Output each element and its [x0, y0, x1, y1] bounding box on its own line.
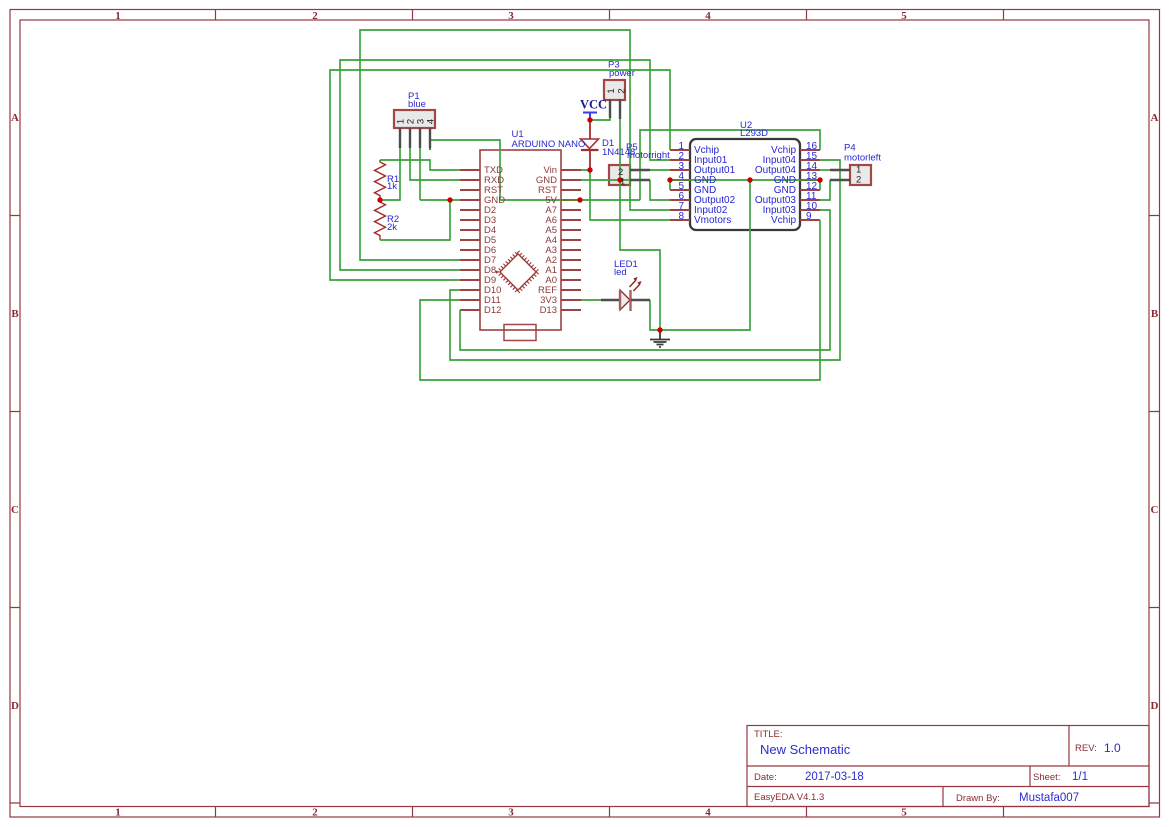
connector P1 body — [394, 110, 435, 128]
node P5 pin1 junction — [617, 177, 622, 182]
svg-text:C: C — [11, 504, 19, 516]
wire P3 pin1 to VCC node — [590, 117, 610, 120]
svg-text:9: 9 — [806, 211, 812, 222]
connector P4 body — [850, 165, 871, 185]
svg-text:3: 3 — [508, 10, 514, 22]
arduino U1 chip diamond icon — [498, 252, 539, 293]
pin numbers P3 rotated — [606, 88, 628, 93]
svg-text:1.0: 1.0 — [1104, 741, 1121, 755]
wire 3V3 to LED anode — [581, 299, 601, 301]
wire U2 pin12 to GND dot — [819, 180, 821, 190]
resistor R2 — [375, 200, 386, 240]
node ground junction — [657, 327, 662, 332]
svg-text:motorleft: motorleft — [844, 153, 881, 164]
pin numbers P5 — [618, 167, 625, 188]
svg-text:Drawn By:: Drawn By: — [956, 793, 1000, 804]
resistor R1 — [375, 160, 386, 200]
wire R1 top to TXD — [380, 160, 460, 170]
svg-text:4: 4 — [426, 119, 437, 124]
row labels right — [1151, 112, 1159, 712]
row labels left — [11, 112, 19, 712]
svg-text:Date:: Date: — [754, 772, 777, 783]
wire D12 to U2 pin10 Input03 — [460, 210, 830, 350]
svg-text:4: 4 — [705, 10, 711, 22]
wire net D8 to U2 pin2 Input01 — [340, 60, 670, 270]
pin names U2 left — [694, 145, 736, 226]
connector P5 body — [609, 165, 630, 185]
svg-text:5: 5 — [901, 10, 907, 22]
wire U2 pin5 to GND dot — [669, 180, 671, 190]
wire U2 pin11 Output03 to P4 pin2 — [820, 180, 830, 200]
ground symbol — [650, 330, 670, 347]
svg-text:D13: D13 — [540, 305, 557, 316]
svg-text:1/1: 1/1 — [1072, 771, 1088, 783]
TITLEBLOCK — [747, 726, 1149, 807]
svg-text:VCC: VCC — [580, 98, 607, 112]
svg-text:C: C — [1151, 504, 1159, 516]
svg-text:B: B — [11, 308, 19, 320]
svg-text:B: B — [1151, 308, 1159, 320]
svg-text:Sheet:: Sheet: — [1033, 772, 1060, 783]
svg-text:1: 1 — [606, 88, 617, 93]
row ticks left — [10, 216, 20, 804]
wire U1 GND right to P5 pin1 row — [581, 179, 650, 181]
svg-text:8: 8 — [678, 211, 684, 222]
svg-text:led: led — [614, 267, 627, 278]
wire Vin D1 Vmotors — [581, 170, 670, 220]
ic U2 left pin stubs — [670, 150, 690, 220]
wire LED cathode to ground — [650, 300, 660, 330]
connector P1 pin stubs — [400, 128, 430, 148]
svg-text:5: 5 — [901, 807, 907, 819]
wire 5V row from riser to pin16 riser — [500, 199, 640, 201]
wire D10 to U2 pin15 Input04 — [450, 160, 840, 360]
column ticks bottom — [216, 807, 1004, 818]
row ticks right — [1149, 216, 1160, 804]
svg-text:1: 1 — [620, 177, 625, 188]
arduino U1 body — [480, 150, 561, 341]
svg-text:2: 2 — [856, 175, 861, 186]
node U2 GND mid junction — [747, 177, 752, 182]
wire P1 pin2 to RXD — [410, 145, 460, 180]
svg-text:Mustafa007: Mustafa007 — [1019, 792, 1079, 804]
pin names U1 left — [484, 165, 505, 316]
wire GND mid branch down to ground — [660, 180, 750, 330]
svg-text:4: 4 — [705, 807, 711, 819]
diode D1 — [581, 120, 599, 170]
JUNCTIONS — [377, 117, 822, 332]
connector P3 body — [604, 80, 625, 100]
node U2 pin4 junction — [667, 177, 672, 182]
svg-text:3: 3 — [508, 807, 514, 819]
svg-text:2k: 2k — [387, 222, 397, 233]
connector P3 pin stubs — [610, 99, 620, 119]
svg-text:Vchip: Vchip — [771, 215, 796, 226]
wire P1 pin4 to 5V row riser — [430, 140, 500, 200]
svg-text:2: 2 — [312, 807, 318, 819]
svg-text:2: 2 — [312, 10, 318, 22]
svg-text:D: D — [1151, 700, 1159, 712]
svg-text:L293D: L293D — [740, 128, 768, 139]
led LED1 lead wires — [601, 299, 650, 301]
svg-text:D: D — [11, 700, 19, 712]
node U2 pin13 junction — [817, 177, 822, 182]
arduino U1 right pin stubs — [561, 170, 581, 310]
ic U2 right pin stubs — [800, 150, 820, 220]
wire P5 pin2 to U2 pin3 Output01 — [650, 169, 670, 171]
wire P1 pin1 to R divider node — [380, 145, 400, 200]
svg-text:ARDUINO NANO: ARDUINO NANO — [512, 139, 586, 150]
svg-text:blue: blue — [408, 99, 426, 110]
DARKSTUBS — [400, 99, 850, 300]
pin numbers U2 right — [806, 141, 818, 222]
column labels top — [115, 10, 907, 22]
wire GND overlay olive on pin4 stub — [670, 179, 820, 181]
title block outline — [747, 726, 1149, 807]
svg-text:Vmotors: Vmotors — [694, 215, 731, 226]
pin numbers P4 — [856, 165, 861, 186]
svg-text:D12: D12 — [484, 305, 501, 316]
svg-text:A: A — [11, 112, 19, 124]
wire P1 pin4 stub overlap segment — [429, 140, 431, 150]
pin names U2 right — [755, 145, 797, 226]
column labels bottom — [115, 807, 907, 819]
wire U2 pin14 to P4 pin1 — [820, 169, 832, 171]
connector P5 pin stubs — [630, 170, 650, 180]
connector P4 pin stubs — [830, 170, 850, 180]
vcc flag — [583, 113, 597, 121]
node R divider junction — [377, 197, 382, 202]
svg-text:TITLE:: TITLE: — [754, 729, 783, 740]
ic U2 L293D body — [690, 139, 800, 230]
led LED1 — [620, 277, 642, 311]
svg-text:2: 2 — [616, 88, 627, 93]
wire D11 to U2 pin9 Vchip — [420, 220, 820, 380]
svg-text:1k: 1k — [387, 181, 397, 192]
svg-text:A: A — [1151, 112, 1159, 124]
wire net D9 to U2 pin1 Vchip — [330, 70, 670, 280]
node VCC junction — [587, 117, 592, 122]
wire P1 pin3 to GND stub — [420, 199, 460, 201]
wire P1 pin3 to GND row — [419, 145, 421, 200]
wire R2 bottom to GND row — [380, 200, 450, 240]
wire P5 pin1 to U2 pin6 Output02 — [650, 180, 670, 200]
wire GND overlay olive on 5V stub — [561, 199, 581, 201]
COMPONENTS — [375, 80, 872, 347]
node GND left junction — [447, 197, 452, 202]
wire P3 pin2 to ground — [620, 117, 660, 330]
svg-text:motorright: motorright — [627, 150, 670, 161]
svg-text:New Schematic: New Schematic — [760, 742, 851, 757]
column ticks top — [216, 10, 1004, 21]
svg-text:1: 1 — [115, 10, 121, 22]
WIRES — [330, 30, 840, 380]
TEXTS — [387, 60, 881, 317]
svg-text:2017-03-18: 2017-03-18 — [805, 771, 864, 783]
wire 5V to U2 pin16 Vchip — [640, 130, 820, 200]
svg-text:REV:: REV: — [1075, 743, 1097, 754]
node 5V junction — [577, 197, 582, 202]
svg-text:EasyEDA V4.1.3: EasyEDA V4.1.3 — [754, 792, 824, 803]
title block row lines — [747, 766, 1149, 787]
pin numbers P1 rotated — [396, 119, 437, 124]
arduino U1 left pin stubs — [460, 170, 480, 310]
title block column lines — [943, 726, 1069, 807]
svg-text:1: 1 — [115, 807, 121, 819]
wire net D7 to U2 pin7 Input02 — [360, 30, 670, 260]
svg-text:power: power — [609, 68, 635, 79]
pin numbers U2 left — [678, 141, 684, 222]
pin names U1 right — [536, 165, 558, 316]
node Vin junction — [587, 167, 592, 172]
wire GND through U2 pins 4 to 13 — [670, 179, 820, 181]
